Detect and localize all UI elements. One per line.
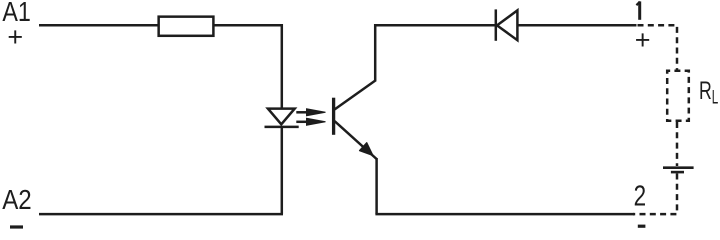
phototransistor [334, 81, 377, 159]
svg-text:R: R [699, 77, 712, 105]
wire collector to diode [374, 24, 495, 27]
minus sign at terminal 2 [638, 225, 646, 228]
minus sign at A2 [10, 225, 23, 228]
terminal A1 [2, 0, 31, 27]
label RL [699, 77, 718, 109]
light emission arrows [296, 109, 325, 126]
resistor [159, 17, 214, 36]
svg-text:2: 2 [634, 181, 647, 213]
LED [265, 109, 299, 127]
svg-text:L: L [712, 88, 719, 109]
diode [496, 9, 518, 40]
wire down to LED [281, 24, 284, 108]
terminal A2 [2, 184, 32, 215]
wire diode to terminal 1 [517, 24, 636, 27]
terminal 2 [634, 181, 647, 213]
load resistor RL [667, 71, 689, 121]
battery [663, 168, 694, 172]
wire A1 to resistor [39, 24, 158, 27]
dashed wire RL to battery [676, 122, 679, 166]
plus sign at terminal 1 [635, 25, 651, 55]
svg-text:A2: A2 [2, 184, 32, 215]
dashed wire battery to terminal 2 [633, 174, 677, 215]
svg-text:+: + [7, 22, 23, 52]
collector wire up [374, 24, 377, 82]
svg-text:+: + [635, 25, 651, 55]
terminal 1 digit [636, 1, 640, 19]
bottom input rail A2 to LED branch [39, 213, 283, 216]
wire resistor to corner [215, 24, 282, 27]
wire emitter to terminal 2 [375, 158, 378, 214]
dashed wire terminal 1 to RL [638, 25, 678, 70]
plus sign at A1 [7, 22, 23, 52]
bottom output rail [375, 213, 634, 216]
wire LED to A2 rail [281, 127, 284, 214]
